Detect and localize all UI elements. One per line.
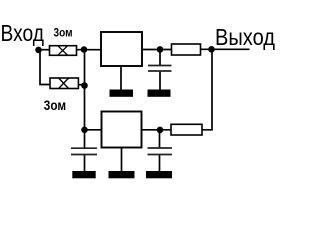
svg-text:3ом: 3ом bbox=[44, 97, 66, 113]
svg-text:Вход: Вход bbox=[1, 20, 45, 46]
svg-text:Выход: Выход bbox=[215, 24, 275, 50]
svg-text:3ом: 3ом bbox=[54, 28, 73, 40]
